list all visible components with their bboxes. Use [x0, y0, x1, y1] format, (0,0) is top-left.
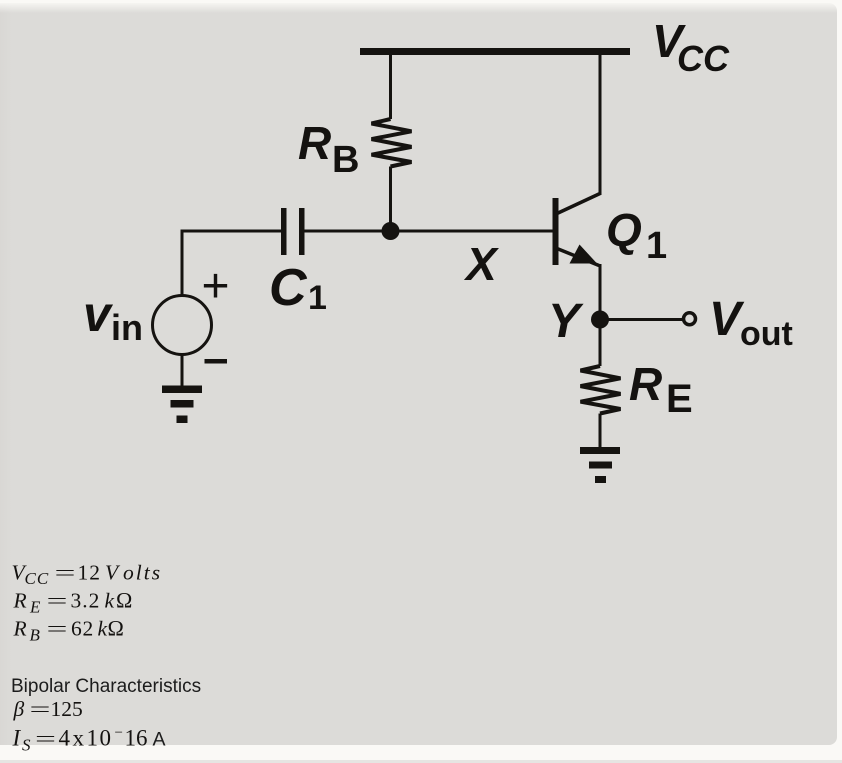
- svg-text:Ω: Ω: [116, 588, 132, 613]
- svg-text:E: E: [666, 377, 693, 421]
- value line Vcc = 12 Volts: [12, 561, 163, 589]
- minus sign: [205, 359, 228, 364]
- svg-text:3.2: 3.2: [71, 589, 101, 613]
- svg-text:=: =: [30, 697, 51, 721]
- svg-text:R: R: [13, 589, 27, 613]
- svg-text:v: v: [83, 286, 114, 342]
- wire C1 to node X to Q1 base: [305, 230, 554, 233]
- svg-text:1: 1: [308, 279, 327, 317]
- label Q1: [606, 204, 667, 267]
- wire emitter to node Y: [599, 264, 602, 320]
- svg-text:E: E: [29, 598, 41, 617]
- svg-text:CC: CC: [677, 38, 730, 79]
- svg-text:10: 10: [87, 726, 113, 751]
- capacitor C1: [281, 208, 305, 255]
- label vin: [83, 286, 143, 348]
- Vcc rail: [360, 48, 630, 55]
- svg-text:Bipolar Characteristics: Bipolar Characteristics: [11, 676, 201, 697]
- svg-text:CC: CC: [25, 569, 50, 588]
- node X: [382, 222, 400, 240]
- wire Y to RE: [599, 320, 602, 367]
- ground (vin): [162, 386, 202, 424]
- svg-text:β: β: [13, 697, 25, 721]
- svg-text:1: 1: [646, 225, 667, 267]
- svg-text:R: R: [13, 617, 27, 641]
- value line beta = 125: [13, 697, 83, 721]
- svg-text:−: −: [115, 725, 123, 741]
- svg-text:S: S: [22, 736, 31, 755]
- svg-text:in: in: [111, 307, 143, 348]
- terminal Vout: [684, 313, 696, 325]
- label C1: [269, 259, 327, 317]
- svg-text:A: A: [153, 729, 166, 751]
- svg-text:R: R: [298, 117, 331, 169]
- label RE: [629, 358, 693, 421]
- svg-text:x: x: [73, 726, 85, 751]
- wire vin to C1: [182, 231, 281, 296]
- svg-text:Ω: Ω: [108, 616, 124, 641]
- svg-text:+: +: [202, 260, 230, 313]
- node Y: [591, 311, 609, 329]
- svg-text:k: k: [98, 617, 108, 641]
- wire collector to Vcc: [599, 52, 602, 196]
- wire RE to ground: [599, 414, 602, 449]
- wire Y to Vout terminal: [600, 318, 683, 321]
- label Vout: [709, 293, 793, 353]
- label RB: [298, 117, 359, 181]
- svg-text:=: =: [35, 727, 56, 751]
- svg-text:Q: Q: [606, 204, 642, 256]
- resistor RE: [581, 366, 621, 414]
- label Vcc: [652, 15, 730, 79]
- svg-text:4: 4: [59, 726, 71, 751]
- svg-text:=: =: [55, 561, 76, 585]
- value line RB = 62 kOhm: [13, 616, 124, 645]
- source vin: [153, 296, 212, 355]
- resistor RB: [372, 119, 412, 167]
- ground (RE): [580, 447, 620, 483]
- value line Is = 4 x 10^-16 A: [12, 725, 166, 755]
- svg-text:out: out: [740, 315, 793, 353]
- svg-text:Y: Y: [548, 295, 584, 348]
- svg-text:k: k: [105, 589, 115, 613]
- svg-text:olts: olts: [123, 561, 162, 585]
- svg-text:R: R: [629, 358, 662, 410]
- svg-text:X: X: [463, 238, 499, 290]
- svg-text:=: =: [47, 617, 68, 641]
- wire Vcc to RB: [389, 52, 392, 120]
- wire vin to ground: [181, 355, 184, 387]
- svg-text:=: =: [47, 589, 68, 613]
- svg-text:125: 125: [51, 697, 83, 721]
- svg-text:62: 62: [71, 617, 94, 641]
- svg-text:12: 12: [78, 561, 102, 585]
- svg-text:V: V: [105, 561, 121, 585]
- svg-text:B: B: [332, 139, 359, 181]
- transistor Q1: [553, 194, 601, 266]
- svg-text:16: 16: [125, 726, 148, 751]
- value line RE = 3.2 kOhm: [13, 588, 133, 617]
- wire RB to node X: [389, 167, 392, 232]
- svg-text:C: C: [269, 259, 308, 317]
- svg-text:I: I: [12, 726, 22, 751]
- svg-text:B: B: [30, 626, 41, 645]
